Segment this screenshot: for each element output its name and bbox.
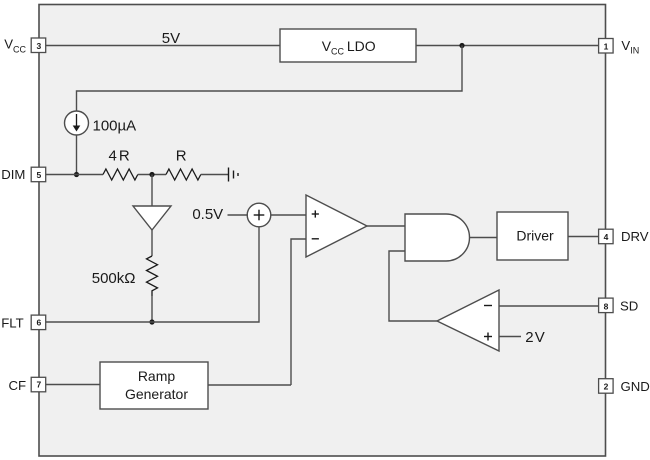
svg-text:DIM: DIM <box>1 167 25 182</box>
svg-text:4: 4 <box>604 232 609 242</box>
svg-text:8: 8 <box>604 302 609 312</box>
svg-text:500kΩ: 500kΩ <box>92 270 136 287</box>
svg-text:VCC LDO: VCC LDO <box>322 38 376 57</box>
driver U4 <box>497 212 568 260</box>
svg-text:2V: 2V <box>525 329 546 346</box>
svg-text:R: R <box>176 147 187 164</box>
svg-text:100µA: 100µA <box>93 118 137 135</box>
wire ramp generator output <box>208 384 291 386</box>
svg-text:0.5V: 0.5V <box>192 206 223 223</box>
pin 2 (GND) <box>599 379 614 394</box>
svg-text:Generator: Generator <box>125 386 188 402</box>
wire junction down and left to current source <box>77 46 463 112</box>
wire pin5 to R1 <box>46 174 103 176</box>
svg-text:FLT: FLT <box>1 315 23 330</box>
wire U5 plus input to 2V <box>499 336 521 338</box>
svg-text:6: 6 <box>37 318 42 328</box>
pin 7 (CF) <box>31 377 46 392</box>
resistor R2 R <box>166 169 201 180</box>
svg-text:3: 3 <box>37 41 42 51</box>
svg-text:SD: SD <box>620 299 638 314</box>
wire LDO to pin1 <box>416 45 599 47</box>
svg-text:Ramp: Ramp <box>138 368 176 384</box>
wire summer to comparator <box>271 214 306 216</box>
comparator U2 <box>306 195 367 257</box>
wire pin7 to ramp generator <box>46 384 100 386</box>
wire R3 to FLT net <box>151 296 153 322</box>
svg-text:Driver: Driver <box>516 227 554 243</box>
summer S1 <box>247 203 271 227</box>
pin 1 (VIN) <box>599 39 614 54</box>
node C between R1 and R2 <box>149 172 154 177</box>
node D on FLT net <box>149 319 154 324</box>
wire R2 to ground <box>201 174 229 176</box>
ground (rotated) <box>229 168 239 182</box>
wire buffer to R3 <box>151 230 153 256</box>
pin 6 (FLT) <box>31 315 46 330</box>
node B on DIM net <box>74 172 79 177</box>
svg-text:VIN: VIN <box>621 38 639 56</box>
wire R1 to R2 <box>138 174 166 176</box>
wire pin3 to VCC LDO <box>46 45 280 47</box>
wire U5 minus input to pin 8 <box>499 305 599 307</box>
svg-text:DRV: DRV <box>621 229 649 244</box>
current source I1 <box>65 111 89 135</box>
regulator U1 VCC LDO <box>280 29 416 62</box>
wire AND output to driver <box>470 237 498 239</box>
resistor R3 500k <box>147 256 158 296</box>
buffer A1 <box>133 206 171 230</box>
wire U2 output to AND gate <box>367 225 405 227</box>
wire current source to DIM net <box>76 135 78 175</box>
svg-text:7: 7 <box>37 380 42 390</box>
wire 0.5V to summer <box>228 214 249 216</box>
svg-text:1: 1 <box>604 41 609 51</box>
wire node C to buffer <box>151 175 153 207</box>
svg-text:CF: CF <box>9 378 27 393</box>
svg-text:2: 2 <box>604 382 609 392</box>
pin 8 (SD) <box>599 298 614 313</box>
pin 4 (DRV) <box>599 229 614 244</box>
wire FLT net to summer <box>46 227 259 322</box>
svg-text:5V: 5V <box>162 30 180 47</box>
wire AND lower input to SD comparator output <box>389 251 437 321</box>
svg-text:VCC: VCC <box>4 37 26 55</box>
comparator U5 (SD) <box>437 290 499 351</box>
pin 5 (DIM) <box>31 167 46 182</box>
pin 3 (VCC) <box>31 38 46 53</box>
svg-text:4R: 4R <box>109 147 132 164</box>
node A junction on VIN net <box>459 43 464 48</box>
svg-text:5: 5 <box>37 170 42 180</box>
and gate U3 <box>405 214 470 261</box>
wire U2 minus input to ramp output <box>291 239 306 385</box>
svg-text:GND: GND <box>621 379 650 394</box>
resistor R1 4R <box>103 169 138 180</box>
wire driver to pin4 <box>568 236 599 238</box>
ramp generator U6 <box>100 362 208 409</box>
